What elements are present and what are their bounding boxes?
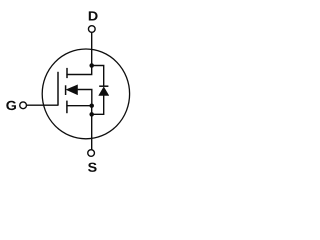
wire drain stub to channel xyxy=(66,66,91,75)
label G xyxy=(6,101,16,110)
wire drain lead xyxy=(91,32,93,65)
node source junction dot 2 xyxy=(89,112,94,117)
wire between source dots xyxy=(91,106,93,115)
channel segment drain (top) xyxy=(66,68,68,78)
node drain junction dot xyxy=(89,63,94,68)
gate terminal circle xyxy=(20,102,27,109)
drain terminal circle xyxy=(88,26,95,33)
node source junction dot 1 xyxy=(89,103,94,108)
body arrow (points to channel) xyxy=(66,85,77,95)
label S xyxy=(88,163,97,172)
source terminal circle xyxy=(88,150,95,157)
wire source lead xyxy=(91,115,93,150)
diode D1 triangle xyxy=(99,87,109,96)
transistor envelope circle Q1 xyxy=(42,49,129,139)
channel segment source (bottom) xyxy=(66,101,68,114)
wire gate lead xyxy=(26,104,58,106)
wire source stub xyxy=(66,105,91,107)
channel segment body (middle) xyxy=(65,85,67,95)
label D xyxy=(89,11,98,20)
wire diode top branch xyxy=(92,66,104,87)
diode D1 cathode bar xyxy=(99,85,108,87)
wire body to source node xyxy=(78,90,92,106)
gate bar xyxy=(57,72,59,105)
wire diode bottom branch xyxy=(92,96,104,115)
